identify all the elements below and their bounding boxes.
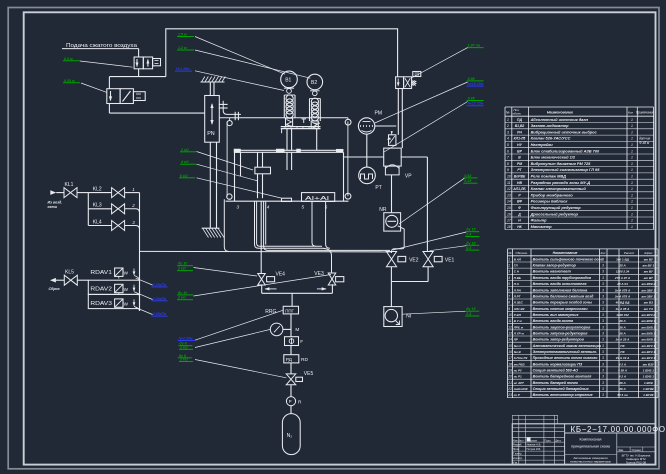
svg-text:Захват-индикатор: Захват-индикатор [531, 123, 570, 128]
svg-text:2 кО: 2 кО [179, 345, 188, 349]
svg-text:18: 18 [507, 225, 511, 229]
filter F [285, 337, 299, 346]
wire VP down to NR [391, 175, 393, 213]
tee fitting on bar [302, 118, 307, 120]
tank internals: left dip tube [240, 152, 242, 176]
svg-text:13: 13 [508, 331, 512, 335]
rail y=117.7 [219, 117, 348, 119]
svg-text:RD: RD [301, 357, 308, 363]
svg-text:Вентиль ввода трубопроводов: Вентиль ввода трубопроводов [533, 276, 592, 280]
svg-text:Адрес: Адрес [643, 251, 653, 255]
valve VE2 [386, 252, 396, 267]
svg-text:Настройки: Настройки [531, 142, 554, 147]
svg-text:0.25кПа: 0.25кПа [153, 297, 166, 301]
black square mark in docs column [527, 438, 531, 442]
svg-text:2н А 078 А: 2н А 078 А [614, 288, 630, 292]
tank internals: float box [255, 167, 271, 174]
svg-text:Группа РК2-08: Группа РК2-08 [626, 461, 646, 465]
pipe 4 (double) from tank bottom [264, 201, 390, 250]
svg-text:10: 10 [508, 313, 512, 317]
svg-text:9: 9 [507, 168, 509, 172]
B1 lower block [286, 118, 293, 126]
title block grid [518, 424, 520, 465]
svg-text:Ф: Ф [518, 206, 521, 210]
parts table 2 [507, 249, 509, 398]
tank top double line [234, 149, 344, 151]
svg-text:Вентиль вил замкнутых: Вентиль вил замкнутых [533, 313, 580, 317]
svg-text:F: F [300, 339, 303, 345]
gauge PT [359, 167, 376, 184]
svg-text:3: 3 [507, 130, 509, 134]
svg-text:Подп.: Подп. [545, 439, 552, 442]
leader wire L1 [80, 61, 133, 67]
svg-text:1: 1 [631, 187, 633, 191]
svg-text:3: 3 [237, 204, 240, 209]
B2 lower block [311, 121, 318, 129]
svg-text:1: 1 [631, 175, 633, 179]
svg-text:ат ВУЗ 2: ат ВУЗ 2 [642, 313, 656, 317]
svg-text:Клапан запор-редуктор: Клапан запор-редуктор [533, 264, 577, 268]
svg-text:Примечание: Примечание [636, 111, 655, 115]
branch vertical [87, 193, 89, 226]
svg-text:Электропневматический вентиль: Электропневматический вентиль [533, 350, 597, 354]
svg-text:9: 9 [508, 307, 510, 311]
svg-text:1: 1 [631, 137, 633, 141]
svg-text:ат ВЗУ: ат ВЗУ [643, 362, 655, 366]
svg-text:26 А: 26 А [618, 325, 625, 329]
wire tank to VP [344, 156, 384, 158]
svg-text:ду 15: ду 15 [466, 241, 476, 245]
wire to RRG [291, 293, 293, 306]
gauge PM [358, 118, 374, 134]
floor anchor (hatched trapezoid) [202, 227, 220, 229]
svg-text:23: 23 [507, 393, 512, 397]
svg-text:3: 3 [602, 294, 604, 298]
svg-text:1 ВУВ 1: 1 ВУВ 1 [643, 368, 655, 372]
svg-text:3: 3 [602, 362, 604, 366]
wire VE4 down [261, 284, 263, 293]
svg-text:Р ВЛ: Р ВЛ [514, 313, 522, 317]
bellows B1 frame [283, 95, 285, 118]
svg-text:KL1: KL1 [65, 182, 74, 188]
RDAV enclosure upper [88, 280, 139, 294]
svg-text:С Н: С Н [514, 270, 520, 274]
bellows B2 coil [311, 98, 318, 105]
wire KL5 to RDAV block [77, 279, 88, 281]
pipe 6 from tank bottom [326, 201, 330, 248]
svg-text:ду 15: ду 15 [466, 228, 476, 232]
svg-text:PN: PN [207, 131, 215, 137]
svg-text:ск Р: ск Р [514, 393, 520, 397]
RDAV1 drain arrow [133, 269, 135, 275]
svg-text:Вентиль баллонов сжатым возд: Вентиль баллонов сжатым возд [533, 294, 595, 298]
tank top left flange [276, 149, 284, 153]
title block upper extension [512, 414, 557, 416]
svg-text:ат ВУЗ 1: ат ВУЗ 1 [642, 350, 656, 354]
svg-text:Вентиль батарей точек: Вентиль батарей точек [533, 381, 579, 385]
wire PM-PT [366, 134, 368, 167]
svg-text:ППГ: ППГ [285, 308, 294, 313]
svg-text:0.65: 0.65 [468, 97, 476, 101]
svg-text:8: 8 [507, 162, 509, 166]
svg-text:3: 3 [602, 264, 604, 268]
svg-text:1: 1 [631, 168, 633, 172]
svg-text:ат ВТ: ат ВТ [644, 276, 654, 280]
svg-text:бм В: бм В [514, 350, 522, 354]
svg-text:Вентиль нагнетает: Вентиль нагнетает [533, 270, 572, 274]
svg-text:12: 12 [508, 325, 512, 329]
svg-text:Вентиль заполнения баллона: Вентиль заполнения баллона [533, 288, 588, 292]
rod from ceiling to PN [209, 82, 211, 96]
svg-text:Вибрационный источник выброс: Вибрационный источник выброс [531, 129, 598, 134]
svg-text:Т.контр.: Т.контр. [513, 452, 523, 456]
svg-text:3: 3 [602, 356, 604, 360]
wire: U1 out down [138, 69, 140, 77]
wires below U3 [397, 89, 399, 135]
pipe 3 (double) from tank bottom [255, 201, 323, 248]
svg-text:4: 4 [267, 204, 270, 209]
svg-text:ат ВУВ 1: ат ВУВ 1 [641, 319, 655, 323]
svg-text:ат-ЗВУ 1: ат-ЗВУ 1 [641, 294, 655, 298]
svg-text:сети: сети [48, 205, 58, 209]
svg-text:40-ВД ВД: 40-ВД ВД [615, 301, 631, 305]
solenoid valve U3 [396, 77, 404, 89]
spring of U3 [412, 81, 414, 86]
svg-text:R: R [298, 399, 302, 405]
svg-text:нс Р1: нс Р1 [514, 375, 522, 379]
leader wire L8 [384, 102, 468, 153]
svg-text:Клапан электромагнитный: Клапан электромагнитный [531, 186, 587, 191]
svg-text:обозн.: обозн. [513, 112, 522, 116]
svg-text:Вентиль вентилятор строение: Вентиль вентилятор строение [533, 393, 593, 397]
pilot valve above VP [389, 135, 396, 146]
svg-text:Подача сжатого воздуха: Подача сжатого воздуха [66, 43, 137, 49]
svg-text:ВпРВЕ: ВпРВЕ [514, 175, 526, 179]
svg-text:Клапан 526-УАС/УСС: Клапан 526-УАС/УСС [531, 136, 571, 141]
svg-text:2 кО: 2 кО [179, 358, 188, 362]
svg-text:РД: РД [286, 357, 293, 363]
svg-text:3: 3 [602, 288, 604, 292]
svg-text:1200 432: 1200 432 [616, 313, 629, 317]
wire: left drop from roller to manifold [224, 199, 228, 251]
svg-text:КБ−2−17.00.00.000ФО: КБ−2−17.00.00.000ФО [571, 425, 666, 434]
bellows B2 frame [309, 99, 311, 122]
svg-text:Вентиль нормализации ПЗ: Вентиль нормализации ПЗ [533, 362, 583, 366]
svg-text:270 А 07 А: 270 А 07 А [614, 276, 630, 280]
svg-text:Наименование: Наименование [553, 251, 578, 255]
svg-text:50 4 лн: 50 4 лн [617, 393, 628, 397]
valve VE1 [423, 252, 433, 267]
roller top-left [229, 118, 231, 121]
wire: manifold pipe to PN [109, 112, 204, 114]
svg-text:6.28: 6.28 [464, 179, 471, 183]
svg-text:26 А: 26 А [618, 387, 625, 391]
svg-text:принципиальная схема: принципиальная схема [571, 444, 610, 448]
title: name cell [616, 433, 618, 465]
wire KL1 to branch [77, 192, 88, 194]
valve U2 (3/2 pneumatic distributor) [107, 89, 120, 104]
svg-text:5: 5 [302, 204, 305, 209]
svg-text:ВФ: ВФ [517, 200, 522, 204]
leader wires RDAV labels [136, 278, 153, 285]
lit/mass/scale cells [629, 447, 631, 452]
svg-text:№: № [506, 111, 510, 115]
svg-text:2 кО: 2 кО [180, 148, 189, 152]
svg-text:2 кО: 2 кО [177, 296, 186, 300]
svg-text:Л УР м: Л УР м [513, 331, 525, 335]
svg-text:1: 1 [631, 225, 633, 229]
svg-text:1: 1 [631, 200, 633, 204]
wire down to NI [390, 282, 392, 307]
wire: supply drop to valve U1 [138, 49, 140, 57]
svg-text:1: 1 [631, 156, 633, 160]
svg-text:Сброс: Сброс [49, 287, 60, 291]
leader wire L7 [375, 82, 468, 123]
svg-text:0.25 м: 0.25 м [64, 79, 75, 83]
svg-text:АЛ1 ВЗ: АЛ1 ВЗ [513, 307, 525, 311]
svg-text:ду 10: ду 10 [178, 262, 187, 266]
svg-text:5: 5 [507, 143, 509, 147]
svg-text:2н А 25 А: 2н А 25 А [615, 338, 630, 342]
wire: drop to valve U2 [108, 77, 110, 89]
svg-text:1: 1 [631, 181, 633, 185]
svg-text:ат ВУЗ 1: ат ВУЗ 1 [642, 344, 656, 348]
svg-text:18: 18 [508, 362, 512, 366]
svg-text:2н А 078 А: 2н А 078 А [614, 294, 630, 298]
svg-text:11: 11 [508, 319, 512, 323]
svg-text:Электронный сигнализатор ГЛ 95: Электронный сигнализатор ГЛ 95 [531, 167, 601, 172]
svg-text:Вентиль перекрыв особой зоны: Вентиль перекрыв особой зоны [533, 301, 592, 305]
svg-text:2: 2 [507, 264, 510, 268]
svg-text:В1,В2: В1,В2 [515, 124, 525, 128]
svg-text:0.4: 0.4 [466, 233, 471, 237]
svg-text:6 кО: 6 кО [180, 174, 188, 178]
svg-text:Блок стабилизированный АЗВ 700: Блок стабилизированный АЗВ 700 [531, 148, 600, 153]
svg-text:ат ВУВ 1: ат ВУВ 1 [641, 325, 655, 329]
svg-text:3: 3 [508, 270, 510, 274]
svg-text:VE1: VE1 [445, 257, 455, 263]
svg-text:Кол: Кол [601, 251, 606, 255]
svg-text:Л ЗБС: Л ЗБС [513, 301, 524, 305]
svg-text:нс РУ: нс РУ [514, 368, 523, 372]
KL collector vertical [139, 193, 141, 311]
svg-text:ат ВУ: ат ВУ [644, 270, 654, 274]
svg-text:3: 3 [602, 381, 604, 385]
svg-text:RDAV2: RDAV2 [90, 286, 112, 292]
svg-text:Иванов А.В.: Иванов А.В. [527, 443, 542, 447]
svg-text:Разраб.: Разраб. [513, 443, 523, 447]
tank internals: float wires [257, 152, 259, 167]
wire: VE4 feed down [260, 201, 262, 274]
leader wire L12 [194, 268, 258, 277]
svg-text:3: 3 [602, 331, 604, 335]
pilot box of valve U1 [153, 59, 161, 66]
svg-text:1: 1 [508, 257, 510, 261]
bellows B1 coil [286, 95, 293, 102]
leader wire L16 [393, 232, 466, 250]
svg-text:25 А: 25 А [618, 264, 625, 268]
svg-text:1: 1 [507, 118, 509, 122]
svg-text:№17 25м: №17 25м [467, 102, 484, 106]
nitrogen bottle N2 [282, 414, 300, 455]
svg-text:1.5 м: 1.5 м [178, 33, 187, 37]
wire: long loop up and right to solenoid valve [166, 29, 398, 77]
svg-text:16: 16 [507, 212, 511, 216]
svg-text:0.52: 0.52 [464, 174, 471, 178]
svg-text:5: 5 [508, 282, 510, 286]
regulator RD [284, 355, 299, 363]
roller bottom-right [345, 193, 351, 199]
svg-text:Вентиль запор-редукторов: Вентиль запор-редукторов [533, 338, 585, 342]
svg-text:PM: PM [375, 111, 383, 117]
leader wire L4 [195, 50, 310, 78]
mounting bar under bellows [281, 126, 321, 128]
fitting on PN top right [222, 101, 224, 111]
svg-text:б-ПАн РЗ: б-ПАн РЗ [514, 356, 528, 360]
outlet arrow [50, 278, 56, 283]
svg-text:Обознач.: Обознач. [515, 251, 528, 255]
svg-text:10: 10 [507, 175, 511, 179]
tank left wall [234, 152, 236, 201]
svg-text:№2 25м: №2 25м [178, 337, 193, 341]
B1 neck [287, 89, 292, 94]
svg-text:ат ВУВ 1: ат ВУВ 1 [641, 338, 655, 342]
leader wire NI [402, 311, 466, 314]
svg-text:датчик: датчик [639, 137, 651, 141]
svg-text:1.2 м: 1.2 м [178, 46, 187, 50]
svg-text:1 ВУЗК: 1 ВУЗК [643, 393, 654, 397]
svg-text:Расход: Расход [624, 251, 634, 255]
svg-text:2: 2 [131, 203, 135, 208]
svg-text:1 ВУВ: 1 ВУВ [644, 381, 654, 385]
roller top-right [347, 118, 349, 120]
svg-text:№1 28м: №1 28м [175, 67, 190, 71]
svg-text:Вентиль зацепов-регуляторов: Вентиль зацепов-регуляторов [533, 325, 591, 329]
svg-text:3: 3 [602, 257, 604, 261]
svg-text:ЛРБ м: ЛРБ м [513, 325, 524, 329]
RDAV3 drain arrow [133, 299, 135, 305]
svg-text:28 А 04: 28 А 04 [616, 282, 628, 286]
tank top far-left cap [234, 149, 241, 153]
svg-text:1.97 лн: 1.97 лн [468, 44, 481, 48]
wire F down [290, 346, 292, 355]
wire VE3 down [331, 284, 333, 293]
svg-text:19: 19 [508, 368, 512, 372]
svg-text:W: W [124, 301, 129, 306]
svg-text:В АЛ: В АЛ [514, 257, 522, 261]
leader wire L6 [412, 48, 468, 78]
svg-text:7: 7 [508, 294, 510, 298]
svg-text:ВР: ВР [517, 149, 522, 153]
right frame vertical [347, 121, 349, 196]
svg-text:Комплексная: Комплексная [580, 438, 602, 442]
svg-text:Петров И.В.: Петров И.В. [527, 447, 542, 451]
title block frame [512, 424, 655, 465]
wire: PN stub elbow to right [223, 111, 241, 115]
svg-text:3: 3 [602, 325, 604, 329]
svg-text:W: W [124, 270, 129, 275]
svg-text:Л ВБ: Л ВБ [513, 276, 521, 280]
svg-text:Аl+Аl: Аl+Аl [305, 196, 329, 202]
pipe B1 inside tank [286, 152, 288, 170]
svg-text:Кол: Кол [628, 111, 633, 115]
svg-text:Автоматический зажим вентиляци: Автоматический зажим вентиляции [532, 344, 602, 348]
svg-text:ПД: ПД [517, 118, 522, 122]
svg-text:ду 15: ду 15 [466, 307, 476, 311]
svg-text:KL4: KL4 [93, 219, 102, 225]
svg-text:3: 3 [602, 350, 604, 354]
bar left end drop [281, 129, 283, 134]
svg-text:1: 1 [631, 162, 633, 166]
svg-text:Секция вентилей 583-АО: Секция вентилей 583-АО [533, 368, 579, 372]
svg-text:0.25кПа: 0.25кПа [153, 283, 166, 287]
svg-text:НУ: НУ [517, 143, 522, 147]
flow line with arrows [262, 292, 333, 294]
svg-text:3: 3 [602, 387, 604, 391]
svg-text:3: 3 [602, 276, 604, 280]
svg-text:7: 7 [507, 156, 509, 160]
wire PPT down [290, 314, 292, 337]
svg-text:1: 1 [631, 212, 633, 216]
svg-text:1: 1 [631, 130, 633, 134]
svg-text:Л РТ: Л РТ [513, 294, 522, 298]
wire R down [290, 406, 292, 414]
flange ticks [234, 112, 236, 120]
svg-text:Фильтрующий редуктор: Фильтрующий редуктор [531, 205, 582, 210]
svg-text:6: 6 [507, 149, 509, 153]
svg-text:6: 6 [508, 288, 510, 292]
svg-text:12: 12 [507, 187, 511, 191]
leader wire L14a [195, 310, 283, 340]
ceiling anchor (hatched) [201, 81, 225, 83]
svg-text:0.3 м: 0.3 м [64, 57, 73, 61]
svg-text:Вибропульт движения РМ 725: Вибропульт движения РМ 725 [531, 161, 592, 166]
leader wire L10 [399, 178, 464, 224]
leader wire L13 [194, 275, 332, 297]
svg-text:1: 1 [631, 219, 633, 223]
wire VE5 down [290, 385, 292, 397]
svg-text:В1: В1 [285, 78, 291, 84]
svg-text:4 2 А: 4 2 А [618, 375, 626, 379]
svg-text:Прибор мембранного: Прибор мембранного [531, 192, 574, 197]
svg-text:Зав.: Зав. [618, 448, 624, 452]
svg-text:2н А 05 А: 2н А 05 А [615, 307, 630, 311]
leader wire L5 [195, 71, 284, 91]
svg-text:1: 1 [631, 118, 633, 122]
svg-text:низкочастотных параметров: низкочастотных параметров [570, 460, 611, 464]
svg-text:Наименование: Наименование [547, 111, 573, 115]
svg-text:PT: PT [375, 185, 381, 191]
svg-text:3: 3 [602, 344, 604, 348]
svg-text:РН: РН [517, 130, 522, 134]
svg-text:3: 3 [602, 270, 604, 274]
svg-text:ду 10: ду 10 [178, 291, 187, 295]
svg-text:Абсолютный источник давл: Абсолютный источник давл [530, 117, 589, 122]
leader wire L17 [430, 246, 467, 251]
svg-text:4 2 А: 4 2 А [618, 362, 626, 366]
svg-text:15: 15 [508, 344, 512, 348]
parts table 1 [504, 107, 506, 230]
svg-text:1: 1 [631, 124, 633, 128]
svg-text:Проходные вентили точек низког: Проходные вентили точек низкого [533, 356, 599, 360]
svg-text:4: 4 [508, 276, 510, 280]
svg-text:нс АРТ: нс АРТ [514, 381, 525, 385]
svg-text:Фильтр: Фильтр [531, 218, 548, 223]
svg-text:8: 8 [508, 301, 510, 305]
svg-text:ЛР: ЛР [513, 338, 518, 342]
B2 neck [313, 91, 318, 96]
svg-text:Разрядник расходо зоны МУ-Д: Разрядник расходо зоны МУ-Д [531, 180, 591, 185]
